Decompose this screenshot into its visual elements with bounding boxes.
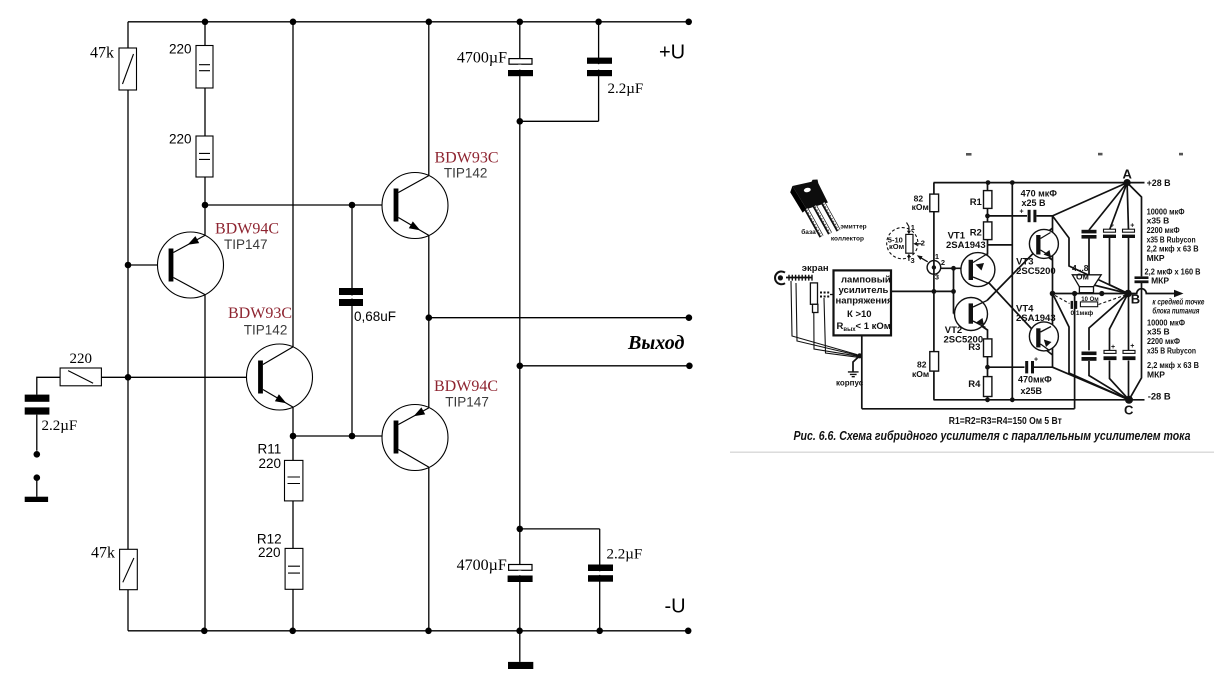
svg-text:2: 2	[941, 258, 945, 267]
svg-text:к средней точке: к средней точке	[1152, 298, 1204, 307]
svg-text:4700µF: 4700µF	[457, 50, 507, 67]
svg-text:+: +	[1110, 223, 1114, 230]
svg-text:+: +	[1130, 343, 1134, 350]
svg-text:TIP147: TIP147	[224, 237, 268, 252]
svg-text:2SA1943: 2SA1943	[1016, 313, 1056, 324]
svg-text:47k: 47k	[90, 45, 114, 62]
svg-text:+: +	[1130, 223, 1134, 230]
svg-text:BDW93C: BDW93C	[435, 150, 499, 167]
svg-text:эмиттер: эмиттер	[840, 223, 866, 230]
svg-text:кОм: кОм	[912, 202, 929, 212]
svg-text:4700µF: 4700µF	[457, 557, 507, 574]
svg-text:+28 В: +28 В	[1147, 178, 1171, 189]
svg-text:TIP142: TIP142	[444, 165, 488, 180]
svg-text:2.2µF: 2.2µF	[42, 418, 78, 434]
svg-text:B: B	[1131, 292, 1140, 307]
svg-text:2.2µF: 2.2µF	[608, 81, 644, 97]
svg-text:BDW94C: BDW94C	[215, 221, 279, 238]
svg-text:МКР: МКР	[1151, 276, 1169, 286]
svg-text:TIP147: TIP147	[445, 394, 489, 409]
svg-text:82: 82	[917, 360, 927, 370]
svg-text:х35 В Rubycon: х35 В Rubycon	[1147, 346, 1196, 356]
svg-text:2200 мкФ: 2200 мкФ	[1147, 336, 1180, 346]
svg-text:усилитель: усилитель	[839, 285, 889, 296]
svg-text:R11: R11	[258, 442, 282, 457]
svg-text:470мкФ: 470мкФ	[1018, 375, 1052, 385]
svg-text:R1: R1	[970, 197, 983, 208]
svg-text:-28 В: -28 В	[1148, 392, 1171, 403]
svg-text:кОм: кОм	[889, 242, 905, 251]
svg-text:+: +	[1020, 209, 1024, 216]
svg-text:МКР: МКР	[1147, 253, 1165, 263]
svg-text:220: 220	[70, 351, 93, 367]
svg-text:напряжения: напряжения	[836, 296, 893, 307]
svg-text:х35 В: х35 В	[1147, 327, 1170, 337]
svg-text:R1=R2=R3=R4=150 Ом 5 Вт: R1=R2=R3=R4=150 Ом 5 Вт	[949, 415, 1062, 427]
svg-text:1: 1	[935, 252, 939, 261]
svg-text:блока питания: блока питания	[1152, 307, 1199, 316]
svg-text:BDW94C: BDW94C	[434, 378, 498, 395]
svg-text:кОм: кОм	[912, 369, 929, 379]
svg-text:корпус: корпус	[836, 379, 864, 388]
svg-text:коллектор: коллектор	[831, 236, 864, 243]
svg-text:2: 2	[921, 238, 925, 247]
svg-text:R4: R4	[968, 379, 981, 390]
svg-text:220: 220	[258, 545, 281, 560]
svg-text:BDW93C: BDW93C	[228, 305, 292, 322]
svg-text:2SA1943: 2SA1943	[946, 240, 986, 251]
svg-text:3: 3	[935, 273, 939, 282]
svg-text:Ом: Ом	[1076, 272, 1089, 282]
svg-text:470 мкФ: 470 мкФ	[1021, 189, 1058, 199]
svg-text:220: 220	[169, 132, 192, 147]
svg-text:220: 220	[169, 42, 192, 57]
svg-text:Рис. 6.6. Схема гибридного уси: Рис. 6.6. Схема гибридного усилителя с п…	[794, 428, 1191, 443]
svg-text:К >10: К >10	[847, 309, 872, 320]
svg-text:10 Ом: 10 Ом	[1081, 297, 1099, 303]
svg-text:х25 В: х25 В	[1022, 198, 1047, 208]
svg-text:A: A	[1123, 167, 1133, 182]
svg-text:C: C	[1124, 403, 1134, 418]
svg-text:0,68uF: 0,68uF	[354, 309, 396, 324]
svg-text:ламповый: ламповый	[841, 275, 891, 286]
svg-text:-U: -U	[665, 596, 686, 618]
svg-text:2,2 мкф х 63 В: 2,2 мкф х 63 В	[1147, 360, 1199, 370]
svg-text:220: 220	[259, 456, 282, 471]
svg-text:2.2µF: 2.2µF	[607, 546, 643, 562]
svg-text:+: +	[1034, 357, 1038, 364]
svg-text:экран: экран	[802, 263, 829, 274]
svg-text:2SC5200: 2SC5200	[944, 335, 984, 346]
svg-text:1: 1	[911, 223, 915, 232]
svg-text:МКР: МКР	[1147, 370, 1165, 380]
svg-text:+U: +U	[659, 42, 685, 64]
svg-text:+: +	[1111, 344, 1115, 351]
svg-text:2,2 мкф х 63 В: 2,2 мкф х 63 В	[1147, 244, 1199, 254]
svg-text:2200 мкФ: 2200 мкФ	[1147, 225, 1180, 235]
svg-text:3: 3	[911, 256, 915, 265]
svg-text:2SC5200: 2SC5200	[1016, 266, 1056, 277]
svg-text:R2: R2	[970, 228, 982, 239]
svg-text:х35 В: х35 В	[1147, 216, 1170, 226]
svg-text:47k: 47k	[91, 545, 115, 562]
svg-text:х25В: х25В	[1021, 386, 1043, 396]
svg-text:TIP142: TIP142	[244, 322, 288, 337]
svg-text:база: база	[801, 228, 816, 236]
svg-text:Выход: Выход	[627, 332, 684, 354]
svg-text:0,1мкф: 0,1мкф	[1071, 310, 1094, 317]
